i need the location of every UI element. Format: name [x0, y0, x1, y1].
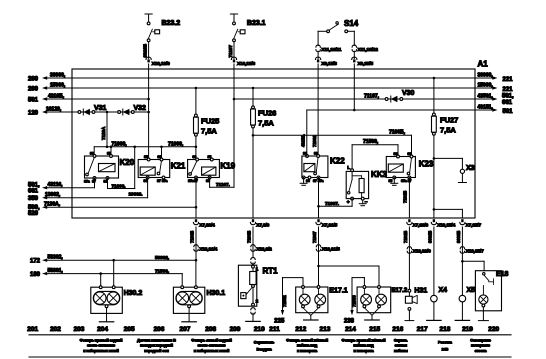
- column number ruler 201-220: [27, 326, 499, 333]
- svg-text:FU26: FU26: [258, 109, 276, 118]
- svg-text:S14: S14: [344, 19, 359, 28]
- svg-text:Датчик отключения В: Датчик отключения В: [137, 339, 176, 343]
- svg-text:B23.2: B23.2: [162, 20, 181, 27]
- wire 40151 from rail to K22 with label: [301, 110, 307, 156]
- wire 7100Б to connector X12,9/2 and RT1: [246, 227, 272, 258]
- svg-text:204: 204: [97, 326, 108, 333]
- svg-text:520: 520: [28, 211, 39, 217]
- svg-text:FU27: FU27: [440, 116, 458, 125]
- svg-text:V31: V31: [94, 105, 107, 112]
- svg-text:238: 238: [344, 318, 355, 324]
- marker lamp H30.1: [173, 286, 225, 322]
- svg-text:V30: V30: [402, 90, 415, 97]
- svg-text:7100Б: 7100Б: [246, 231, 251, 243]
- svg-text:219: 219: [462, 326, 473, 333]
- svg-text:свето-сигналов: свето-сигналов: [87, 344, 116, 348]
- diode V32: [118, 105, 146, 115]
- relay K23: [386, 152, 434, 183]
- svg-text:X10,12/8: X10,12/8: [237, 61, 255, 67]
- svg-text:E17.1: E17.1: [329, 287, 347, 294]
- svg-text:сигнал: сигнал: [395, 344, 408, 348]
- svg-text:кабины: кабины: [394, 349, 408, 353]
- branch wire 71503 with exit arrow 238: [344, 278, 364, 325]
- svg-text:16120,: 16120,: [46, 106, 62, 112]
- svg-text:71107: 71107: [228, 45, 233, 58]
- connector X7,21/5 on A1 bottom edge: [316, 219, 338, 228]
- svg-text:H30.2: H30.2: [124, 290, 143, 297]
- svg-text:7101Б: 7101Б: [403, 231, 408, 243]
- svg-text:40151,: 40151,: [478, 104, 494, 110]
- svg-text:87: 87: [92, 180, 96, 184]
- branch from FU27 wire to bottom connector X7,25/7: [434, 209, 463, 218]
- rail 4310Б/501 (left segment, ends at B23.2 wire): [28, 93, 149, 103]
- svg-text:X3: X3: [466, 165, 475, 172]
- svg-text:Звуков.: Звуков.: [394, 339, 408, 343]
- svg-text:7,5A: 7,5A: [440, 126, 456, 135]
- fuse FU25 7,5A: [194, 87, 220, 160]
- svg-text:V32: V32: [134, 105, 147, 112]
- svg-text:Осушитель: Осушитель: [254, 341, 275, 345]
- svg-text:Фонарь правый задний: Фонарь правый задний: [80, 339, 123, 343]
- svg-text:43116,: 43116,: [48, 182, 64, 188]
- svg-text:86: 86: [394, 152, 398, 156]
- svg-text:B23.1: B23.1: [247, 20, 266, 27]
- svg-text:71503: 71503: [352, 295, 357, 307]
- svg-text:86: 86: [104, 180, 108, 184]
- svg-text:501,: 501,: [502, 93, 514, 99]
- svg-text:71001: 71001: [312, 135, 317, 147]
- svg-text:Фонарь правый жёлтый: Фонарь правый жёлтый: [341, 339, 386, 343]
- svg-text:120: 120: [28, 111, 39, 117]
- svg-text:225: 225: [274, 318, 285, 324]
- rail 15000/200-221: [28, 82, 513, 93]
- svg-text:71000,: 71000,: [168, 141, 184, 147]
- buzzer H31: [405, 288, 427, 321]
- svg-text:7110A: 7110A: [101, 126, 106, 140]
- connector X7,8/6 on A1 bottom edge: [250, 219, 269, 228]
- svg-text:7101Б: 7101Б: [403, 191, 408, 203]
- svg-text:71307.: 71307.: [325, 201, 339, 206]
- switch B23.2 (cab light switch): [145, 14, 180, 42]
- svg-text:172: 172: [30, 259, 41, 265]
- relay K22: [302, 152, 345, 184]
- svg-text:30000,: 30000,: [478, 72, 494, 78]
- svg-text:208: 208: [205, 326, 216, 333]
- svg-text:K19: K19: [220, 162, 235, 171]
- svg-text:H30.1: H30.1: [207, 290, 226, 297]
- svg-text:87a: 87a: [188, 179, 194, 183]
- svg-text:203: 203: [74, 326, 85, 333]
- switch S14 (hazard/marker switch): [318, 19, 359, 33]
- relay K19: [188, 155, 236, 183]
- svg-text:A1: A1: [478, 60, 489, 69]
- svg-text:30: 30: [158, 155, 162, 159]
- wire 6310Б from B23.2 to A1 connector X10,12/9: [143, 42, 170, 67]
- svg-text:58302,: 58302,: [155, 255, 169, 260]
- svg-text:30: 30: [193, 155, 197, 159]
- svg-text:86: 86: [306, 179, 310, 183]
- diode V30: [385, 90, 414, 102]
- svg-text:212: 212: [295, 326, 306, 333]
- svg-text:7,5A: 7,5A: [201, 127, 217, 136]
- svg-text:кабина впд: кабина впд: [297, 344, 318, 348]
- svg-text:30000,: 30000,: [50, 72, 66, 78]
- svg-text:71502: 71502: [282, 295, 287, 307]
- exit 43116/501,661 to K20: [28, 178, 95, 194]
- svg-text:661: 661: [28, 188, 39, 194]
- rail 30000/200-221 (top bus): [28, 72, 513, 83]
- svg-text:7130Б: 7130Б: [189, 231, 194, 243]
- line 71307 from K22 to KK3: [319, 199, 353, 207]
- svg-text:7,5A: 7,5A: [258, 119, 274, 128]
- wire 71307 to connector X13,21/5 and turn lamps: [312, 227, 340, 287]
- svg-text:218: 218: [439, 326, 450, 333]
- svg-text:Фонарь левый жёлтый: Фонарь левый жёлтый: [286, 339, 329, 343]
- socket X4 (24V outlet): [427, 287, 447, 320]
- svg-text:K21: K21: [171, 162, 186, 171]
- svg-text:X7,28/6: X7,28/6: [413, 222, 429, 228]
- connector X7,25/7 on A1 bottom edge: [460, 219, 482, 228]
- connector X7,28/6 on A1 bottom edge: [407, 219, 429, 228]
- svg-text:202: 202: [50, 326, 61, 333]
- svg-text:220: 220: [488, 326, 499, 333]
- svg-text:X10,15/4: X10,15/4: [437, 222, 455, 228]
- svg-text:X9,15/5: X9,15/5: [358, 61, 374, 67]
- svg-text:71000,: 71000,: [112, 141, 128, 147]
- wire 7101Б to connector X13,29/6 and buzzer H31: [403, 227, 431, 289]
- svg-text:71307: 71307: [312, 231, 317, 243]
- junction of V31-V32 output: [106, 111, 109, 114]
- svg-text:87a: 87a: [84, 180, 90, 184]
- svg-text:и габаритных огней: и габаритных огней: [83, 349, 119, 353]
- label 71001 on S14 left leg wire: [312, 135, 317, 147]
- svg-text:71506,: 71506,: [155, 268, 169, 273]
- svg-text:KK3: KK3: [371, 170, 388, 179]
- svg-text:211: 211: [269, 326, 280, 333]
- svg-text:Воздуха: Воздуха: [256, 348, 272, 352]
- relay K21: [138, 155, 186, 183]
- S14 left leg wire with connectors X11,18/11 and X9,15/3: [316, 31, 342, 156]
- svg-text:85: 85: [144, 155, 148, 159]
- svg-text:моторного: моторного: [471, 344, 491, 348]
- svg-text:+: +: [347, 201, 350, 206]
- svg-text:43501,: 43501,: [478, 93, 494, 99]
- svg-text:210: 210: [254, 326, 265, 333]
- svg-text:30: 30: [408, 152, 412, 156]
- line 71500 between KK3 and K23 coil: [352, 139, 398, 169]
- svg-text:K20: K20: [120, 158, 135, 167]
- svg-text:X4: X4: [439, 287, 448, 294]
- exit 13002/350 to K21: [28, 191, 148, 202]
- svg-text:85: 85: [208, 155, 212, 159]
- branch from FU27 wire to connector X3: [434, 158, 463, 169]
- svg-text:221: 221: [503, 87, 514, 93]
- svg-text:205: 205: [124, 326, 135, 333]
- svg-text:201: 201: [27, 326, 38, 333]
- svg-text:колодок передней: колодок передней: [140, 344, 174, 348]
- svg-text:E18: E18: [496, 271, 509, 278]
- rail 16120/120 (left segment with diodes V31 V32): [28, 106, 149, 116]
- relay K20: [84, 152, 135, 184]
- fuse FU26 7,5A: [251, 87, 277, 218]
- svg-text:X13,29/6: X13,29/6: [413, 249, 431, 255]
- wire B23.2 drop into A1 down to relay K21 pin: [147, 64, 150, 160]
- svg-text:RT1: RT1: [263, 267, 279, 276]
- diode V31: [78, 105, 107, 115]
- svg-text:X11,18/11: X11,18/11: [321, 47, 341, 53]
- branch wire 71502 with exit arrow 225: [274, 278, 303, 325]
- ground under K23: [391, 178, 398, 186]
- line 58302 to marker lamps (exit 172): [30, 254, 196, 264]
- svg-text:L: L: [347, 165, 350, 170]
- svg-text:X7,28/4: X7,28/4: [199, 222, 215, 228]
- svg-text:213: 213: [319, 326, 330, 333]
- svg-text:кабина впд: кабина впд: [353, 344, 374, 348]
- wire 3003Б to connector X13,25/7, X5 and E18: [456, 227, 484, 295]
- svg-text:15000,: 15000,: [478, 82, 494, 88]
- svg-text:30: 30: [90, 152, 94, 156]
- svg-text:K22: K22: [330, 157, 345, 166]
- turn/marker lamp E17.2: [357, 286, 408, 320]
- switch B23.1: [230, 14, 265, 42]
- svg-text:221: 221: [503, 77, 514, 83]
- wire 7130Б from K19 down through A1 edge: [195, 178, 198, 219]
- rail 71107-43501 (right segment with diode V30): [234, 93, 514, 106]
- wire 3001Б to socket X4: [427, 227, 434, 295]
- svg-text:501: 501: [503, 109, 514, 115]
- caption texts: [80, 339, 491, 353]
- svg-text:2: 2: [256, 298, 259, 303]
- svg-text:X7,25/7: X7,25/7: [466, 222, 482, 228]
- line 7100Б from FU26 to relay K23 contact: [253, 130, 412, 157]
- drop wires to lamp H30.2: [101, 260, 114, 287]
- svg-text:X7,21/5: X7,21/5: [322, 222, 338, 228]
- svg-text:85: 85: [107, 152, 111, 156]
- exit 7130A/500,520: [28, 201, 196, 217]
- block A1 (central electric unit) outline: [72, 60, 488, 219]
- svg-text:FU25: FU25: [201, 117, 219, 126]
- svg-text:H31: H31: [414, 288, 427, 295]
- svg-text:200: 200: [28, 77, 39, 83]
- wire 7110A from V31/V32 junction down to line 71000: [101, 112, 107, 147]
- svg-text:1: 1: [256, 266, 259, 271]
- fuse FU27 7,5A: [432, 77, 459, 218]
- svg-text:58301,: 58301,: [48, 268, 64, 274]
- svg-text:86: 86: [144, 179, 148, 183]
- svg-text:и поворота: и поворота: [297, 349, 318, 353]
- svg-text:свето-сигналов: свето-сигналов: [198, 344, 227, 348]
- svg-text:207: 207: [179, 326, 190, 333]
- svg-text:и габаритных огней: и габаритных огней: [194, 349, 230, 353]
- svg-text:X13,21/5: X13,21/5: [322, 247, 340, 253]
- svg-text:215: 215: [369, 326, 380, 333]
- wire 71107 from B23.1 to A1 connector X10,12/8: [228, 42, 255, 67]
- svg-text:X11,18/12: X11,18/12: [358, 47, 379, 53]
- ground under K22: [300, 178, 307, 186]
- svg-text:и поворота: и поворота: [353, 349, 374, 353]
- svg-text:85: 85: [389, 179, 393, 183]
- svg-text:217: 217: [417, 326, 428, 333]
- rail 40151/501 (right segment): [307, 104, 513, 115]
- svg-text:X12,9/2: X12,9/2: [256, 247, 272, 253]
- svg-text:206: 206: [154, 326, 165, 333]
- svg-text:501: 501: [28, 98, 39, 104]
- wire 71307 from K22 contact down through A1 edge: [317, 178, 320, 219]
- svg-text:4310Б,: 4310Б,: [48, 93, 65, 99]
- svg-text:180: 180: [30, 272, 41, 278]
- heater resistor unit RT1: [238, 265, 278, 306]
- ground under KK3: [359, 200, 366, 206]
- svg-text:71000,: 71000,: [112, 183, 126, 188]
- connector X10,15/4 on A1 bottom edge: [431, 219, 455, 228]
- svg-text:X9,15/3: X9,15/3: [321, 61, 337, 67]
- svg-text:3003Б: 3003Б: [456, 231, 461, 243]
- svg-text:отсека: отсека: [475, 349, 488, 353]
- connector pair below RT1 and ground: [246, 308, 260, 322]
- svg-text:200: 200: [28, 87, 39, 93]
- wire from K21 to line 13002: [147, 178, 149, 198]
- wire 7101Б from K23 contact down through A1 edge: [403, 178, 410, 219]
- svg-text:X13,25/7: X13,25/7: [466, 249, 484, 255]
- S14 right leg wire with connectors X11,18/12 and X9,15/5: [352, 31, 379, 111]
- marker lamp H30.2: [91, 286, 143, 322]
- svg-text:6310Б: 6310Б: [143, 43, 148, 57]
- wire 7130Б to connector X13,21/4 and lamp line: [189, 227, 217, 262]
- svg-text:87a 87: 87a 87: [401, 179, 411, 183]
- svg-text:24В: 24В: [442, 348, 449, 352]
- svg-text:13002,: 13002,: [45, 192, 61, 198]
- svg-text:71107.: 71107.: [216, 182, 230, 187]
- svg-text:13002.: 13002.: [129, 191, 143, 196]
- svg-text:E17.2: E17.2: [392, 288, 408, 294]
- drop wires to lamp H30.1: [182, 260, 196, 287]
- turn lamp feed junction to E17.1/E17.2: [319, 266, 380, 287]
- svg-text:661: 661: [502, 100, 513, 106]
- svg-text:30: 30: [314, 152, 318, 156]
- svg-text:K23: K23: [419, 160, 434, 169]
- svg-text:7100Б,: 7100Б,: [389, 130, 406, 136]
- connector pair above RT1: [251, 258, 255, 266]
- svg-text:214: 214: [345, 326, 356, 333]
- svg-text:71107,: 71107,: [364, 93, 380, 99]
- svg-text:X10,12/9: X10,12/9: [152, 61, 170, 67]
- svg-text:Фонарь левый задний: Фонарь левый задний: [191, 339, 232, 343]
- engine bay lamp unit E18: [475, 271, 508, 321]
- branch wire to lamp E18: [462, 261, 484, 270]
- svg-text:216: 216: [392, 326, 403, 333]
- svg-text:87 87a: 87 87a: [157, 179, 167, 183]
- wire 71000 return loop under K20: [108, 147, 135, 189]
- connector X3: [458, 165, 474, 183]
- svg-text:передней оси: передней оси: [144, 349, 169, 353]
- svg-text:7130A,: 7130A,: [44, 201, 61, 207]
- thermal flasher KK3: [346, 165, 387, 206]
- connector X7,28/4 on A1 bottom edge: [193, 219, 215, 228]
- wire B23.1 drop into A1 down to relay K19 (net 71107): [233, 64, 236, 187]
- svg-text:58302,: 58302,: [48, 254, 64, 260]
- svg-text:15000,: 15000,: [50, 82, 66, 88]
- svg-text:X7,8/6: X7,8/6: [256, 222, 269, 228]
- wire 71107 loop from B23.1 to K19 coil: [210, 178, 234, 188]
- svg-text:40151.: 40151.: [301, 134, 306, 147]
- line 71000 feeding relay coils: [94, 141, 196, 159]
- svg-text:209: 209: [230, 326, 241, 333]
- connector X5: [455, 287, 475, 320]
- svg-text:71500,: 71500,: [363, 139, 379, 145]
- svg-text:X13,21/4: X13,21/4: [199, 247, 217, 253]
- svg-text:Освещение: Освещение: [470, 339, 491, 343]
- svg-text:X5: X5: [467, 287, 476, 294]
- svg-text:Розетка: Розетка: [438, 341, 453, 345]
- svg-text:3001Б: 3001Б: [427, 231, 432, 243]
- line 58301/71506 to marker lamps (exit 180): [30, 268, 182, 278]
- svg-text:350: 350: [28, 196, 39, 202]
- caption strip rules: [29, 335, 511, 357]
- turn/marker lamp E17.1: [296, 286, 348, 320]
